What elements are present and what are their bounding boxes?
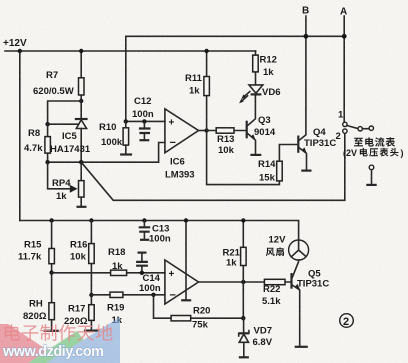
node R11 top [204, 49, 208, 53]
transistor Q4 TIP31C [297, 136, 299, 153]
resistor R8 [47, 124, 49, 162]
resistor R15 [51, 221, 53, 303]
node A junction on top rail [342, 34, 347, 39]
node rail junction C13 [142, 218, 146, 222]
transistor Q5 TIP31C [290, 273, 292, 289]
resistor R12 [253, 55, 259, 72]
ground C13 [140, 239, 149, 241]
node R16/R19/R17 junction [89, 293, 93, 297]
resistor R17 [90, 295, 92, 329]
node R8 bottom junction [45, 160, 49, 164]
wire IC6a output [199, 130, 207, 132]
resistor R11 [206, 51, 208, 131]
wire +12V rail [5, 50, 256, 52]
ground IC6b [181, 299, 191, 301]
potentiometer RP4 [80, 162, 82, 205]
switch lever and throw contacts [347, 126, 358, 129]
LED VD6 [255, 94, 257, 95]
resistor R22 [264, 279, 285, 284]
wire A vertical [343, 16, 345, 122]
transistor Q3 9014 [246, 121, 248, 139]
node R15/RH junction [49, 270, 53, 274]
wire top sense rail y=36.3 [126, 35, 344, 37]
wire output node down to R20/VD7 [242, 282, 244, 318]
ground RP4 [77, 206, 87, 208]
node R20/VD7 junction [241, 316, 245, 320]
capacitor C12 [143, 121, 145, 139]
op-amp IC5 HA17431 (TL431) [80, 101, 82, 118]
resistor R18 [111, 270, 127, 275]
label to-ammeter [354, 138, 363, 147]
wire non-inverting input rail y=121.4 [126, 120, 165, 122]
wire RP4 junction diagonal to switch contact 2 [81, 133, 345, 200]
op-amp U2 IC6b LM393 [165, 260, 199, 304]
switch contact 1 [343, 122, 347, 126]
node R19/R20 junction [151, 293, 155, 297]
zener diode VD7 6.8V [243, 318, 245, 333]
op-amp U1 IC6a LM393 [165, 109, 199, 153]
wire IC5 reference to R8 top [48, 123, 78, 125]
wire R19 rail y=294.8 [91, 294, 164, 296]
node rail junction IC6b power [184, 218, 188, 222]
ground C12 [139, 139, 149, 141]
node rail junction R15 [49, 218, 53, 222]
ground R17 [84, 330, 100, 332]
ground RH [44, 330, 59, 332]
node R7 bottom junction [79, 99, 83, 103]
ground Q4 emitter [301, 170, 311, 172]
wire mid rail y=220.5 to fan [20, 221, 299, 241]
resistor R7 [80, 51, 82, 101]
capacitor C14 [138, 252, 147, 254]
fan motor 12V [289, 240, 309, 260]
node B junction on top rail [304, 34, 309, 39]
wire R18 rail y=273 [52, 272, 165, 274]
ground Q5 emitter [295, 346, 308, 348]
figure number circled 2 [340, 314, 354, 328]
node C12 top [142, 119, 146, 123]
resistor R13 [207, 130, 246, 132]
node C14 bottom junction [140, 271, 144, 275]
resistor R16 [90, 221, 92, 296]
meter terminal post [369, 165, 374, 170]
watermark site name [5, 324, 113, 341]
wire reference rail y=162.2 to inverting input of IC6a [48, 143, 165, 163]
capacitor C13 [143, 221, 145, 239]
node R7 top [79, 49, 83, 53]
node R8 top [45, 122, 49, 126]
ground Q3 emitter [250, 154, 261, 156]
node IC6a output junction [204, 128, 208, 132]
switch contact 2 [343, 129, 347, 133]
node IC5 anode / RP4 top junction [79, 160, 83, 164]
wire R7 bottom to R8 top [48, 101, 82, 124]
LED VD6 emission arrows [243, 92, 250, 98]
wire IC6a output down and right to R14 [207, 131, 280, 185]
wire IC6b power pin through symbol to ground [185, 221, 187, 300]
scan noise overlay [0, 0, 1, 1]
node rail junction R16 [89, 218, 93, 222]
resistor R21 [242, 221, 244, 283]
node R10 top [124, 119, 128, 123]
resistor R19 [110, 292, 123, 297]
wire left vertical from +12V down to bottom rail [19, 51, 21, 221]
watermark triangles [0, 317, 120, 363]
node +12V left junction [18, 49, 22, 53]
resistor R20 [171, 316, 191, 321]
resistor R14 [277, 161, 283, 181]
wire feedback down to R20 [154, 295, 244, 318]
ground R10 [120, 153, 132, 155]
wire sense vertical (crosses +12V rail, no junction) [125, 36, 127, 121]
wire IC6b output [199, 281, 291, 283]
wire RP4 wiper [48, 162, 71, 189]
node rail junction R21 [241, 218, 245, 222]
resistor R10 [125, 121, 127, 153]
ground VD7 [239, 356, 249, 358]
node IC6b output junction [241, 280, 245, 284]
resistor RH [49, 303, 55, 320]
